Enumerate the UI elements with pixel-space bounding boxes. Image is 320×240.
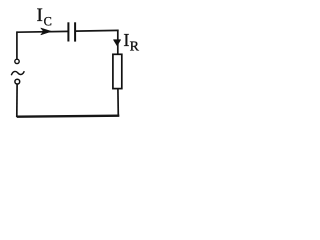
current arrow IC head (points right) (41, 28, 52, 35)
AC source tilde symbol (11, 71, 24, 75)
wire: left vertical upper, corner down to source terminal (16, 31, 18, 59)
AC source lower terminal (15, 79, 20, 84)
wire: top horizontal, source corner to capacitor left plate (17, 30, 69, 33)
capacitor C left plate (67, 22, 69, 41)
svg-text:IC: IC (37, 5, 52, 29)
AC source upper terminal (15, 59, 19, 63)
current arrow IR head (points down) (114, 40, 121, 46)
wire: resistor bottom to bottom-right corner (117, 89, 119, 116)
wire: left vertical lower, source terminal to bottom corner (16, 84, 18, 117)
capacitor C right plate (74, 22, 76, 41)
wire: right vertical, corner down to resistor top (117, 30, 119, 55)
resistor R body (113, 54, 122, 88)
wire: capacitor right plate to top-right corner (76, 29, 119, 32)
wire: bottom horizontal (17, 116, 120, 117)
svg-text:IR: IR (123, 30, 139, 55)
